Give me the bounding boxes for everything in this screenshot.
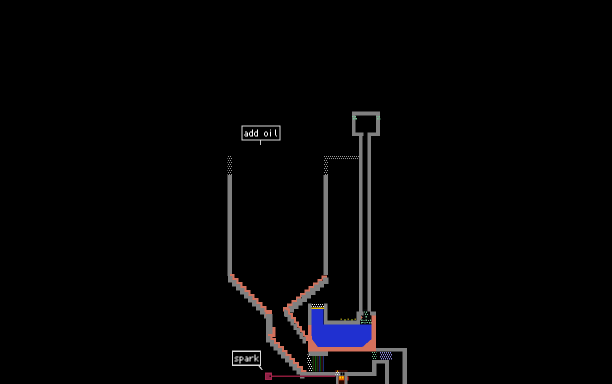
green particles in cup left corner (352, 116, 357, 120)
spark button (265, 373, 272, 381)
pointer of sign "spark" (259, 365, 263, 369)
wall: drop pipe left wall (359, 136, 363, 312)
green particles in cup right corner (376, 116, 380, 120)
heater lining on channel left staircase (268, 334, 307, 376)
heater lining: wedge left of coal pile (361, 316, 365, 321)
heater lining right of channel left vertical (273, 327, 276, 337)
wall: cup left side (352, 115, 364, 136)
heater lining: pool bottom-right corner (362, 339, 371, 347)
wall: flame left pier (336, 376, 339, 384)
wall: flame right pier (344, 376, 347, 384)
fire glow above bar (335, 370, 348, 372)
wall: outer bar right of pool (376, 348, 407, 352)
blue specks under lid (314, 307, 320, 308)
wall: chamber bottom bar (304, 372, 372, 376)
wall: left funnel vertical (228, 175, 232, 276)
dotted vent: middle horizontal line (324, 156, 359, 160)
wall: beaker left wall gray (308, 303, 312, 325)
wall: channel right staircase descending right (284, 310, 306, 343)
e-wall checkered section of bottom bar (335, 372, 339, 376)
flame (339, 376, 345, 384)
heater lining on left funnel staircase (230, 274, 271, 316)
green particle pile in pocket (372, 352, 377, 359)
wall: inner chicane (372, 360, 389, 384)
wall: drop pipe right wall (368, 136, 372, 312)
wall: shelf over pool (324, 312, 361, 324)
water pool (312, 309, 372, 347)
dotted lid on water column (312, 303, 324, 306)
green particles on coal pile (361, 311, 372, 323)
wall: upper flare left of pipe (357, 312, 364, 316)
wall: middle funnel staircase descending left (284, 278, 328, 316)
lavender particle pile in pocket (380, 352, 392, 360)
dotted plug staircase (307, 355, 313, 372)
wall: water column right wall (324, 303, 328, 320)
sign "spark" (232, 351, 260, 365)
wall: cup right side (368, 115, 381, 136)
sign "add oil" (242, 126, 280, 140)
wall: channel left staircase (266, 336, 305, 379)
wall: middle funnel vertical (324, 175, 329, 275)
spark wire from button to flame (272, 376, 335, 378)
wall: upper flare right of pipe (370, 312, 376, 316)
dotted vent: middle vertical column (324, 160, 328, 175)
coal pile under pipe (360, 309, 372, 324)
heater lining: pool bottom band (309, 347, 376, 352)
wall: left funnel staircase (228, 276, 269, 319)
heater wire: yellow line on water column (312, 307, 324, 309)
heater lining: beaker left wall (308, 325, 312, 352)
wall: outer right vertical (403, 352, 407, 384)
burnt stripes in chamber (312, 356, 323, 372)
dotted vent: left column (228, 155, 232, 175)
wall: channel left vertical (266, 314, 273, 336)
holes in bottom bar above flame (341, 372, 345, 375)
spark glow right of flame (347, 377, 348, 381)
wall: pool bottom gray bar (308, 352, 328, 356)
heater lining patch at funnel throat (265, 310, 271, 317)
heater lining: beaker right wall (371, 316, 376, 352)
wall: cup top bar (352, 112, 380, 116)
heater lining: pool bottom-left corner (308, 336, 318, 352)
heater lining on channel right staircase (286, 308, 308, 340)
olive debris on shelf (341, 319, 357, 321)
pointer of sign "add oil" (260, 141, 261, 145)
heater lining on middle funnel staircase top face (283, 275, 327, 311)
